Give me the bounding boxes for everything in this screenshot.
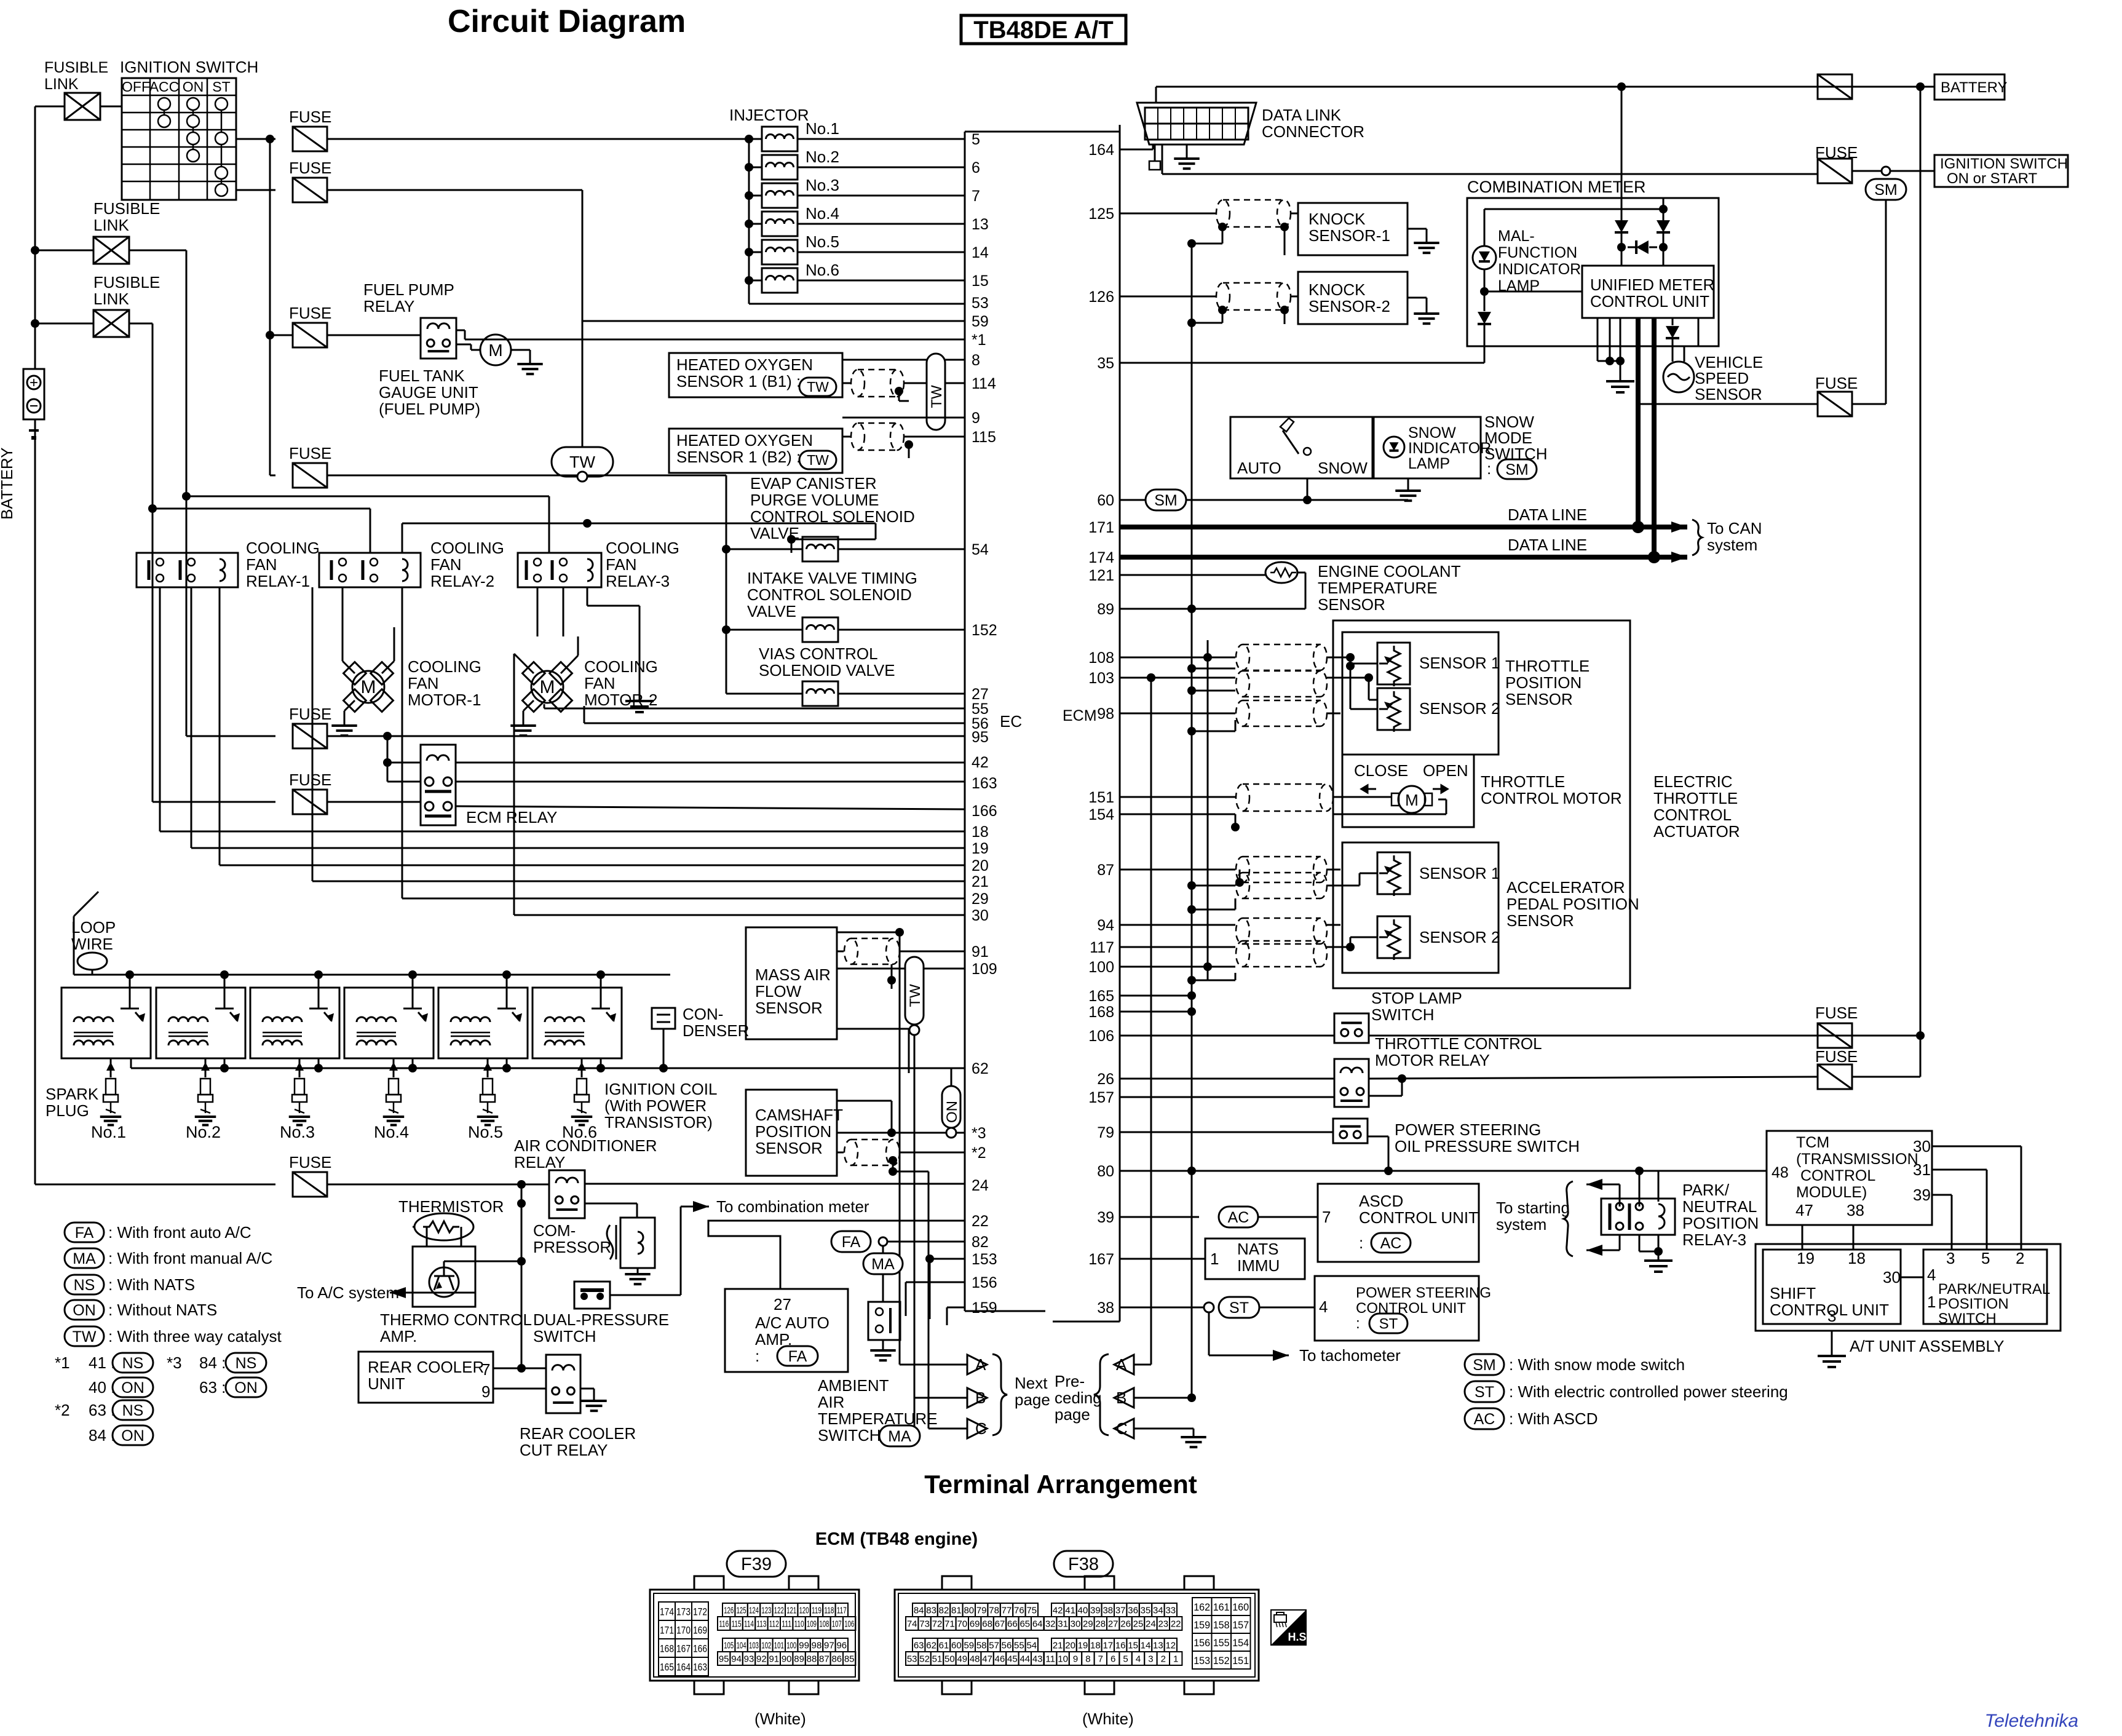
svg-text:A/T UNIT ASSEMBLY: A/T UNIT ASSEMBLY [1850,1337,2004,1355]
wire: feed verticals from fusible links [186,250,188,736]
svg-text:115: 115 [972,429,996,446]
svg-text:Next: Next [1015,1374,1048,1392]
svg-text:95: 95 [719,1654,729,1665]
svg-text:FAN: FAN [606,555,637,574]
svg-text:1: 1 [1927,1293,1936,1311]
svg-text:SWITCH: SWITCH [1938,1310,1997,1327]
svg-text:TRANSISTOR): TRANSISTOR) [604,1113,713,1132]
svg-text:POSITION: POSITION [1938,1296,2009,1312]
svg-text:SENSOR 1: SENSOR 1 [1419,864,1500,882]
wire: ignition ST feed [236,189,275,191]
svg-text:157: 157 [1088,1089,1114,1106]
svg-text:HEATED OXYGEN: HEATED OXYGEN [676,431,813,450]
svg-text:REAR COOLER: REAR COOLER [520,1424,636,1443]
svg-text:H.S.: H.S. [1288,1631,1309,1643]
svg-text:THROTTLE: THROTTLE [1505,657,1590,675]
svg-text:THERMO CONTROL: THERMO CONTROL [380,1310,532,1329]
park/neutral position relay-3 [1601,1199,1675,1235]
svg-text:C: C [1116,1419,1128,1438]
TW oval (ignition feed) [552,447,613,477]
svg-text:To tachometer: To tachometer [1299,1346,1401,1365]
meter inner feed loop [1484,208,1663,210]
svg-text:FA: FA [842,1234,861,1251]
svg-text:SENSOR 1: SENSOR 1 [1419,654,1500,672]
svg-text:112: 112 [769,1619,779,1630]
svg-text:SM: SM [1154,492,1178,509]
spark plug No.5 [487,1058,489,1077]
svg-text:THROTTLE: THROTTLE [1481,772,1565,791]
svg-text:40: 40 [1078,1606,1088,1616]
svg-text:17: 17 [1103,1641,1113,1651]
svg-text::: : [1487,459,1491,478]
svg-text:27: 27 [1108,1619,1118,1630]
svg-text:21: 21 [972,873,989,890]
next page triangles [967,1355,987,1374]
svg-text:M: M [488,341,502,360]
svg-text:27: 27 [774,1295,791,1314]
fuel pump motor [480,335,511,365]
APPS sensor 2 [1377,916,1410,958]
shift control unit [1763,1250,1901,1324]
DLC top loop to battery feed [1156,86,1920,88]
svg-text:60: 60 [1097,492,1114,509]
legend MA [65,1248,104,1268]
svg-text:LINK: LINK [93,216,129,234]
svg-text:77: 77 [1002,1606,1012,1616]
svg-text:POSITION: POSITION [1505,673,1582,692]
svg-text:POWER STEERING: POWER STEERING [1395,1120,1541,1139]
solenoid feed vertical [726,475,727,694]
svg-text:ECM: ECM [1063,707,1097,724]
fuse (ECM relay 1) [186,735,275,737]
svg-text:104: 104 [737,1641,746,1651]
svg-text:108: 108 [1088,649,1114,667]
heated oxygen sensor 1 (B1) [669,353,842,397]
wire pin 80 to TCM 48 [1120,1170,1767,1172]
svg-text:163: 163 [693,1662,707,1673]
svg-text:NS: NS [236,1355,257,1372]
svg-text:165: 165 [1088,988,1114,1005]
svg-text:FAN: FAN [246,555,277,574]
svg-text:SENSOR 1 (B1) :: SENSOR 1 (B1) : [676,372,801,390]
svg-text:: With NATS: : With NATS [108,1275,195,1294]
legend NS [65,1275,104,1294]
park/neutral position switch [1923,1250,2047,1324]
svg-text:117: 117 [1090,939,1114,956]
svg-text:72: 72 [932,1619,943,1630]
svg-text::: : [755,1347,759,1365]
svg-text:FUSE: FUSE [1815,1047,1858,1066]
svg-text:MOTOR RELAY: MOTOR RELAY [1375,1051,1490,1069]
svg-text:No.2: No.2 [186,1123,221,1141]
svg-text:95: 95 [972,729,989,746]
svg-text:PARK/: PARK/ [1682,1181,1730,1199]
svg-text:78: 78 [989,1606,999,1616]
svg-text:106: 106 [1088,1028,1114,1045]
svg-text:3: 3 [1946,1249,1955,1267]
svg-text:123: 123 [761,1606,771,1616]
vertical distribution 2 [1207,640,1209,980]
svg-text:TB48DE A/T: TB48DE A/T [973,17,1113,44]
svg-text:Pre-: Pre- [1055,1372,1085,1390]
svg-text:COOLING: COOLING [430,539,504,557]
svg-text:11: 11 [1045,1654,1055,1665]
svg-text:ELECTRIC: ELECTRIC [1653,772,1733,791]
F38 pin rows right [1051,1603,1064,1617]
svg-text:COMBINATION METER: COMBINATION METER [1467,178,1646,196]
svg-text:INTAKE VALVE TIMING: INTAKE VALVE TIMING [747,569,917,587]
svg-text:94: 94 [1097,917,1114,934]
svg-text:47: 47 [982,1654,992,1665]
svg-text:LINK: LINK [44,76,79,93]
svg-text:103: 103 [749,1641,759,1651]
svg-text:To combination meter: To combination meter [716,1197,869,1216]
svg-text:106: 106 [844,1619,854,1630]
svg-text:UNIT: UNIT [368,1374,405,1393]
svg-text:5: 5 [1123,1654,1128,1665]
svg-text:157: 157 [1232,1619,1249,1631]
svg-text:87: 87 [1097,862,1114,879]
svg-text:10: 10 [1058,1654,1068,1665]
svg-text:6: 6 [1110,1654,1115,1665]
svg-text:SENSOR: SENSOR [1506,911,1574,930]
svg-text:ON: ON [73,1302,96,1319]
svg-text:65: 65 [1019,1619,1030,1630]
svg-text:CONTROL UNIT: CONTROL UNIT [1356,1300,1466,1317]
to CAN system brace [1692,520,1702,555]
svg-text:AC: AC [1228,1209,1249,1226]
ignition coil unit No.3 [250,988,339,1058]
svg-text:56: 56 [1002,1641,1012,1651]
wire: ignition coil ground bus to pin 62 [131,1068,965,1069]
svg-text:117: 117 [837,1606,847,1616]
svg-text:SENSOR: SENSOR [1318,595,1385,614]
svg-text:RELAY-3: RELAY-3 [1682,1231,1746,1249]
svg-text:22: 22 [1171,1619,1181,1630]
svg-text:97: 97 [824,1641,834,1651]
svg-text:107: 107 [832,1619,842,1630]
svg-text:SHIFT: SHIFT [1770,1284,1816,1302]
svg-text:BATTERY: BATTERY [0,447,16,520]
svg-text:7: 7 [1322,1208,1331,1226]
svg-text:35: 35 [1141,1606,1151,1616]
unified meter control unit [1582,266,1714,318]
svg-text:108: 108 [819,1619,829,1630]
svg-text:COOLING: COOLING [606,539,679,557]
svg-text:126: 126 [1088,288,1114,306]
svg-text:IGNITION COIL: IGNITION COIL [604,1080,717,1098]
svg-text:26: 26 [1120,1619,1131,1630]
svg-text:53: 53 [907,1654,917,1665]
svg-text:FLOW: FLOW [755,982,802,1001]
wire pin 35 [1120,362,1484,364]
svg-text:ECM (TB48 engine): ECM (TB48 engine) [815,1529,978,1549]
svg-text:F38: F38 [1068,1555,1099,1574]
svg-text:76: 76 [1014,1606,1024,1616]
svg-text:A/C AUTO: A/C AUTO [755,1314,829,1332]
vehicle speed sensor [1663,362,1694,392]
svg-text:30: 30 [1913,1137,1931,1155]
svg-text:LINK: LINK [93,290,129,308]
svg-text:SPARK: SPARK [46,1085,99,1103]
svg-text:4: 4 [1927,1266,1936,1284]
svg-text:ST: ST [1229,1299,1249,1317]
svg-text:116: 116 [719,1619,729,1630]
preceding page triangles [1114,1355,1134,1374]
svg-text:SWITCH: SWITCH [533,1327,596,1346]
svg-text:32: 32 [1045,1619,1056,1630]
svg-text:85: 85 [844,1654,855,1665]
spark plug No.2 [205,1058,207,1077]
snow mode switch box (auto/snow) [1230,417,1372,478]
accelerator pedal position sensor box [1342,842,1498,973]
vertical distribution 3 [1147,673,1155,682]
svg-text:35: 35 [1097,355,1114,372]
spark plug No.4 [393,1058,395,1077]
svg-text:70: 70 [957,1619,967,1630]
svg-text:79: 79 [976,1606,987,1616]
svg-text:114: 114 [744,1619,754,1630]
svg-text:38: 38 [1097,1299,1114,1317]
svg-text:No.5: No.5 [806,232,839,251]
svg-text:15: 15 [972,272,989,290]
svg-text:ENGINE COOLANT: ENGINE COOLANT [1318,562,1461,581]
svg-text:FUSIBLE: FUSIBLE [44,59,108,76]
svg-text:94: 94 [731,1654,742,1665]
svg-text:98: 98 [812,1641,822,1651]
svg-text:89: 89 [794,1654,804,1665]
svg-text:41 :: 41 : [89,1354,115,1372]
svg-text:IMMU: IMMU [1237,1256,1280,1275]
knock sensor-2 [1120,296,1216,298]
svg-text:63: 63 [914,1641,924,1651]
svg-text:19: 19 [972,840,989,857]
svg-text:53: 53 [972,295,989,312]
svg-text:2: 2 [2016,1249,2024,1267]
svg-text:RELAY: RELAY [363,297,414,315]
svg-text:16: 16 [1115,1641,1126,1651]
svg-text:MAL-: MAL- [1498,228,1535,245]
svg-text:PARK/NEUTRAL: PARK/NEUTRAL [1938,1281,2050,1298]
svg-text:18: 18 [1090,1641,1101,1651]
svg-text:20: 20 [1065,1641,1075,1651]
svg-text:160: 160 [1232,1601,1249,1613]
svg-text:ON: ON [121,1427,145,1445]
svg-text:AC: AC [1474,1411,1495,1428]
svg-text:1: 1 [1210,1250,1219,1268]
svg-text:SENSOR-2: SENSOR-2 [1308,297,1390,315]
svg-text:MA: MA [73,1250,96,1267]
MA oval [863,1253,903,1274]
svg-text:BATTERY: BATTERY [1941,79,2007,96]
svg-text:20: 20 [972,857,989,874]
svg-text:48: 48 [970,1654,980,1665]
svg-text:63 :: 63 : [89,1401,115,1419]
svg-text:54: 54 [1026,1641,1037,1651]
svg-text:81: 81 [951,1606,962,1616]
svg-text:FUSIBLE: FUSIBLE [93,273,160,291]
svg-text:59: 59 [964,1641,974,1651]
svg-text:(FUEL PUMP): (FUEL PUMP) [379,400,480,418]
ignition coil unit No.6 [532,988,622,1058]
svg-text:24: 24 [972,1177,989,1194]
SM oval (ignition) [1882,167,1890,175]
svg-text:23: 23 [1158,1619,1168,1630]
svg-text:FUSE: FUSE [289,108,331,126]
svg-text:36: 36 [1128,1606,1138,1616]
power steering oil pressure switch [1120,1132,1333,1133]
fuse (air conditioner) [35,1184,275,1186]
svg-text:THROTTLE CONTROL: THROTTLE CONTROL [1375,1034,1542,1053]
svg-text:TEMPERATURE: TEMPERATURE [1318,579,1438,597]
svg-text:155: 155 [1213,1637,1230,1649]
svg-text:87: 87 [819,1654,829,1665]
ignition coil unit No.2 [156,988,245,1058]
svg-text:RELAY-1: RELAY-1 [246,572,310,590]
ignition coil unit No.5 [438,988,528,1058]
svg-text:44: 44 [1019,1654,1030,1665]
svg-text:73: 73 [919,1619,930,1630]
svg-text:151: 151 [1088,789,1114,806]
svg-text:171: 171 [1088,519,1114,536]
svg-text:EVAP CANISTER: EVAP CANISTER [750,474,877,493]
svg-text:8: 8 [972,352,980,369]
svg-text:99: 99 [799,1641,809,1651]
svg-text:FAN: FAN [408,674,439,692]
svg-text:POWER STEERING: POWER STEERING [1356,1285,1491,1301]
svg-text:TW: TW [807,379,829,395]
svg-text:173: 173 [676,1606,691,1618]
svg-text:82: 82 [972,1234,989,1251]
condenser [652,1008,675,1029]
svg-text:SENSOR: SENSOR [755,1139,823,1157]
svg-text:152: 152 [1213,1655,1230,1667]
svg-text:SWITCH:: SWITCH: [818,1426,885,1445]
svg-text:ON: ON [234,1379,258,1397]
engine coolant temperature sensor [1120,574,1267,576]
svg-text:To A/C system: To A/C system [297,1283,399,1302]
svg-text:INJECTOR: INJECTOR [729,106,809,124]
svg-text:13: 13 [972,216,989,233]
F38 pin rows left [913,1603,925,1617]
ASCD control unit [1318,1184,1479,1262]
svg-text:SOLENOID VALVE: SOLENOID VALVE [759,661,895,680]
svg-text:98: 98 [1097,705,1114,723]
svg-text:AIR CONDITIONER: AIR CONDITIONER [514,1136,657,1155]
svg-text:50: 50 [944,1654,955,1665]
svg-text:M: M [1405,791,1419,809]
wire: left main vertical bus [34,106,36,369]
svg-text:No.3: No.3 [806,176,839,194]
svg-text:174: 174 [660,1606,674,1618]
F39 connector [694,1576,724,1590]
wire pin 156 [906,1282,965,1283]
svg-text:25: 25 [1133,1619,1144,1630]
svg-text:ON: ON [183,79,204,95]
svg-text:91: 91 [972,943,989,961]
svg-text:152: 152 [972,622,997,639]
svg-text::: : [1359,1234,1363,1252]
svg-text:4: 4 [1136,1654,1141,1665]
dual-pressure switch [574,1282,610,1309]
rear cooler cut relay [546,1355,580,1413]
cooling fan motor-1 [352,671,384,703]
data line 2 (pin 174) [1120,555,1654,560]
svg-text:MA: MA [888,1428,911,1445]
svg-text:DUAL-PRESSURE: DUAL-PRESSURE [533,1310,669,1329]
svg-text:ECM RELAY: ECM RELAY [466,808,557,826]
svg-text:Teletehnika: Teletehnika [1985,1711,2078,1731]
svg-text:30: 30 [972,907,989,924]
svg-text:49: 49 [957,1654,967,1665]
svg-text:12: 12 [1165,1641,1176,1651]
svg-text:172: 172 [693,1606,707,1618]
thermo control amp [413,1247,475,1307]
svg-text:CONTROL: CONTROL [1800,1167,1875,1184]
svg-text:54: 54 [972,541,989,558]
title box TB48DE A/T [961,15,1126,44]
svg-text:RELAY: RELAY [514,1153,565,1171]
svg-text:IGNITION SWITCH: IGNITION SWITCH [1940,156,2068,172]
svg-text:59: 59 [972,313,989,330]
a/c auto amp [725,1289,848,1372]
svg-text:THROTTLE: THROTTLE [1653,789,1738,807]
wire pin 164 to DLC [1120,149,1153,151]
svg-text:FUSE: FUSE [289,771,331,789]
svg-text:84 :: 84 : [199,1354,226,1372]
svg-text:CONTROL: CONTROL [1653,806,1732,824]
svg-text:165: 165 [660,1662,674,1673]
TW capsule between pins 8/9 [927,354,945,430]
svg-text:FAN: FAN [584,674,616,692]
svg-text:SENSOR-1: SENSOR-1 [1308,226,1390,245]
svg-text:DATA LINE: DATA LINE [1508,505,1587,524]
svg-text:CLOSE: CLOSE [1354,761,1408,780]
UMCU diode to speed sensor [1672,318,1674,325]
svg-text:: With front manual A/C: : With front manual A/C [108,1249,272,1267]
svg-text:29: 29 [1083,1619,1093,1630]
svg-text:62: 62 [972,1060,989,1077]
svg-text:166: 166 [972,803,997,820]
svg-text:COM-: COM- [533,1221,576,1240]
svg-text:ASCD: ASCD [1359,1192,1403,1210]
svg-text:CONNECTOR: CONNECTOR [1262,122,1364,141]
svg-text:119: 119 [812,1606,821,1616]
svg-text:156: 156 [972,1274,997,1291]
svg-text:121: 121 [1088,567,1114,584]
svg-text:TW: TW [807,452,829,468]
svg-text:Circuit Diagram: Circuit Diagram [448,4,686,39]
svg-text:PURGE VOLUME: PURGE VOLUME [750,491,879,509]
legend FA [65,1223,104,1242]
snow indicator lamp box [1374,417,1481,478]
throttle position sensor box [1342,632,1498,755]
ignition coil feed bus [74,974,670,976]
wire: relay row interconnects [186,496,549,497]
svg-text:7: 7 [972,188,980,205]
svg-text:No.5: No.5 [468,1123,503,1141]
F38 grid (162-151) [1192,1598,1212,1615]
svg-text:FUSE: FUSE [289,159,331,177]
throttle control motor relay [1120,1078,1334,1080]
svg-text:9: 9 [481,1382,490,1401]
malfunction indicator lamp [1473,246,1496,269]
svg-text:CONTROL MOTOR: CONTROL MOTOR [1481,789,1622,807]
svg-text:CAMSHAFT: CAMSHAFT [755,1106,843,1124]
svg-text:NS: NS [74,1277,95,1294]
svg-text:75: 75 [1026,1606,1037,1616]
svg-text:COOLING: COOLING [246,539,320,557]
